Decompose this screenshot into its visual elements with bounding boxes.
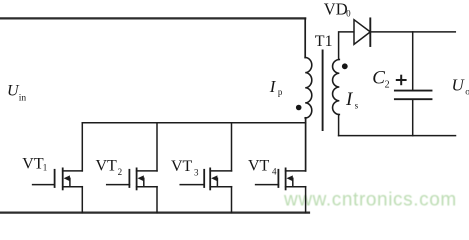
wire output top xyxy=(370,31,455,33)
wire top input rail xyxy=(0,17,305,19)
body arrow xyxy=(64,175,70,181)
transistor VT2 xyxy=(107,123,157,213)
gate bar xyxy=(54,170,56,187)
drain riser xyxy=(81,123,83,171)
channel bar xyxy=(285,168,287,189)
gate lead xyxy=(180,184,204,186)
drain riser xyxy=(231,123,233,171)
svg-text:VT: VT xyxy=(171,158,193,175)
source drop xyxy=(231,187,233,213)
channel bar xyxy=(136,168,138,189)
source lead xyxy=(210,186,231,188)
svg-text:C: C xyxy=(372,67,385,88)
source lead xyxy=(137,186,157,188)
svg-text:www.cntronics.com: www.cntronics.com xyxy=(283,190,457,211)
svg-text:T1: T1 xyxy=(315,33,333,50)
drain lead xyxy=(137,170,157,172)
wire drain bus xyxy=(82,122,305,124)
source drop xyxy=(156,187,158,213)
wire secondary top stem xyxy=(339,32,354,60)
svg-text:2: 2 xyxy=(118,167,123,177)
svg-text:2: 2 xyxy=(385,80,390,91)
capacitor C2 bottom plate xyxy=(395,98,432,100)
svg-text:VT: VT xyxy=(96,158,118,175)
gate lead xyxy=(256,184,279,186)
transformer T1 secondary winding xyxy=(333,60,340,115)
body drop xyxy=(69,178,71,186)
gate lead xyxy=(107,184,130,186)
transformer secondary polarity dot xyxy=(342,63,348,69)
transformer core xyxy=(322,51,324,131)
diode VD0 cathode bar xyxy=(369,18,371,46)
capacitor plus sign xyxy=(396,75,407,86)
body arrow xyxy=(138,175,144,181)
svg-text:s: s xyxy=(355,100,359,110)
channel bar xyxy=(62,168,64,189)
svg-text:3: 3 xyxy=(194,167,199,177)
source lead xyxy=(286,186,306,188)
wire bottom input rail xyxy=(0,212,309,214)
wire primary top stem xyxy=(304,18,306,57)
svg-text:p: p xyxy=(278,87,283,97)
svg-text:o: o xyxy=(465,87,469,97)
svg-text:4: 4 xyxy=(272,167,277,177)
gate bar xyxy=(128,170,130,187)
svg-text:0: 0 xyxy=(346,9,351,19)
wire capacitor bottom lead xyxy=(412,100,414,136)
body drop xyxy=(292,178,294,186)
wire secondary bottom stem xyxy=(338,115,340,136)
transistor VT1 xyxy=(33,123,83,213)
source drop xyxy=(305,187,307,213)
diode VD0 xyxy=(354,20,370,45)
transformer primary polarity dot xyxy=(296,105,302,111)
channel bar xyxy=(209,168,211,189)
svg-text:VD: VD xyxy=(324,0,348,18)
gate bar xyxy=(203,170,205,187)
drain riser xyxy=(156,123,158,171)
svg-text:in: in xyxy=(19,94,27,104)
wire output bottom xyxy=(339,135,456,137)
svg-text:VT: VT xyxy=(248,157,270,174)
source drop xyxy=(81,187,83,213)
wire primary bottom stem / VT4 drain riser xyxy=(305,118,307,171)
body arrow xyxy=(287,175,293,181)
drain lead xyxy=(286,170,306,172)
source lead xyxy=(63,186,83,188)
body arrow xyxy=(211,175,217,181)
svg-text:1: 1 xyxy=(43,163,48,173)
transformer T1 primary winding xyxy=(305,58,312,118)
wire capacitor top lead xyxy=(412,32,414,90)
gate bar xyxy=(277,170,279,187)
body drop xyxy=(143,178,145,186)
capacitor C2 top plate xyxy=(395,90,432,92)
drain lead xyxy=(210,170,231,172)
transistor VT4 xyxy=(256,168,306,212)
drain lead xyxy=(63,170,83,172)
body drop xyxy=(216,178,218,186)
gate lead xyxy=(33,184,55,186)
transistor VT3 xyxy=(180,123,231,213)
svg-text:VT: VT xyxy=(22,155,44,172)
svg-text:U: U xyxy=(452,75,466,94)
